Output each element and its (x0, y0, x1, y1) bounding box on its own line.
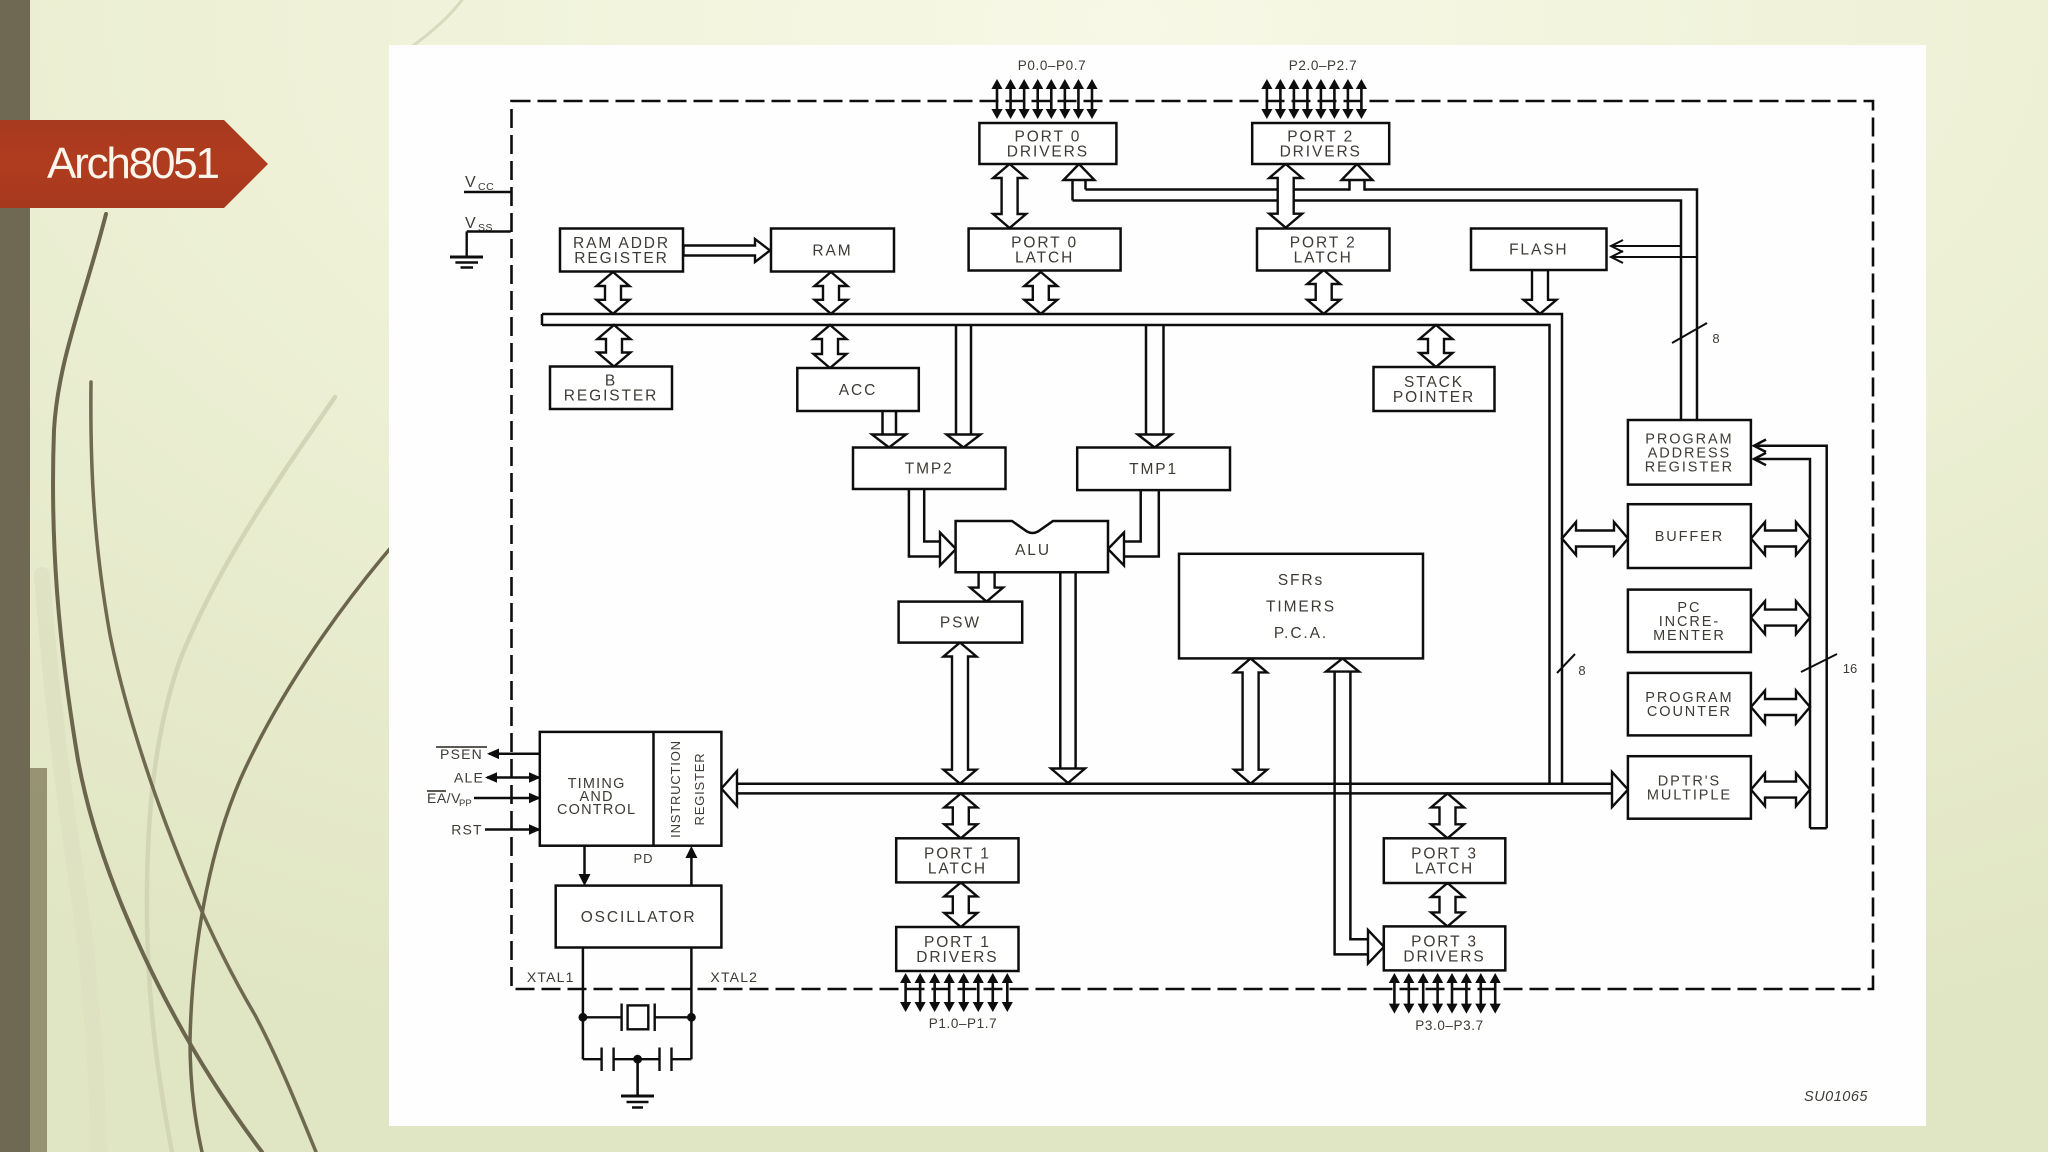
wire+arrow: bus to TMP2 (947, 325, 981, 448)
arrow: ALU to PSW (970, 572, 1003, 602)
Vcc pin label (464, 174, 512, 193)
arrow: bus to ACC (814, 325, 847, 368)
port 3 pins P3.0-P3.7 (1389, 973, 1501, 1014)
svg-text:EA/V: EA/V (427, 790, 461, 806)
arrow: PORT 3 LATCH to PORT 3 DRIVERS (1431, 883, 1464, 926)
block ACC (797, 368, 919, 411)
arrow: DPTR'S MULTIPLE to PC bus (1751, 773, 1810, 806)
arrow: bus to BUFFER (1562, 522, 1628, 555)
svg-text:PSW: PSW (940, 615, 981, 632)
block TIMING AND CONTROL (540, 732, 722, 846)
arrow: RAM ADDR REGISTER to bus (597, 272, 630, 314)
arrow: address lines up into PORT 0 DRIVERS (1064, 164, 1095, 201)
label: 8-bit slash (program address lines) (1672, 323, 1720, 346)
arrow: address lines up into PORT 2 DRIVERS (1342, 164, 1373, 191)
block PORT 1 LATCH (896, 838, 1018, 882)
svg-text:DRIVERS: DRIVERS (1007, 143, 1089, 160)
svg-text:REGISTER: REGISTER (564, 388, 658, 405)
arrow: PORT 2 DRIVERS to PORT 2 LATCH (1269, 164, 1302, 228)
wire: port driver address lines to program address register (1073, 190, 1698, 421)
arrow: bus to STACK POINTER (1420, 325, 1453, 367)
svg-text:8: 8 (1712, 331, 1719, 346)
wire: 16-bit program counter bus (right column) (1754, 440, 1827, 829)
svg-text:P0.0–P0.7: P0.0–P0.7 (1018, 58, 1086, 73)
wire+arrow: SFRs to PORT 3 DRIVERS (1326, 658, 1384, 963)
ground symbol (Vss) (450, 232, 483, 268)
wire+arrow: TMP1 to ALU (1108, 490, 1159, 566)
label: 8-bit slash (data bus right) (1557, 654, 1586, 678)
pin ALE (bidirectional) (454, 770, 541, 786)
block PORT 1 DRIVERS (896, 927, 1018, 971)
wire: XTAL2 leg (690, 948, 693, 1060)
svg-text:P2.0–P2.7: P2.0–P2.7 (1289, 58, 1357, 73)
svg-text:SU01065: SU01065 (1804, 1089, 1868, 1105)
svg-text:V: V (465, 215, 476, 232)
block RAM (771, 229, 894, 272)
capacitor C2 (638, 1048, 692, 1072)
svg-text:FLASH: FLASH (1509, 242, 1568, 259)
svg-text:TMP1: TMP1 (1129, 461, 1178, 478)
wire+arrow: ALU to data bus (1051, 572, 1085, 783)
svg-text:XTAL1: XTAL1 (527, 969, 575, 985)
block PROGRAM COUNTER (1628, 673, 1751, 736)
port 2 pins P2.0-P2.7 (1261, 79, 1367, 119)
block PORT 2 LATCH (1257, 229, 1390, 271)
svg-text:16: 16 (1843, 661, 1857, 676)
wire+arrow: OSCILLATOR to TIMING AND CONTROL (685, 846, 697, 886)
block PORT 0 LATCH (969, 229, 1121, 271)
block PROGRAM ADDRESS REGISTER (1628, 420, 1751, 485)
arrow: PORT 0 DRIVERS to PORT 0 LATCH (993, 164, 1026, 228)
block PSW (899, 602, 1023, 643)
block PORT 3 LATCH (1384, 838, 1506, 883)
slide title banner (0, 120, 268, 208)
wire+arrow: TMP2 to ALU (909, 489, 956, 566)
svg-text:REGISTER: REGISTER (692, 753, 707, 826)
block RAM ADDR REGISTER (560, 229, 683, 272)
arrow: PROGRAM COUNTER to PC bus (1751, 691, 1810, 724)
arrow: BUFFER to PC bus (1751, 522, 1810, 555)
wire: main internal bus (542, 314, 1562, 784)
arrow: data bus to PORT 1 LATCH (944, 793, 977, 838)
svg-text:RST: RST (451, 822, 483, 838)
svg-text:ALE: ALE (454, 770, 484, 786)
block PORT 3 DRIVERS (1384, 926, 1506, 970)
arrow: PORT 2 LATCH to bus (1307, 270, 1340, 314)
svg-text:LATCH: LATCH (1294, 249, 1353, 266)
arrow: PORT 0 LATCH to bus (1024, 272, 1057, 314)
svg-text:LATCH: LATCH (1415, 861, 1474, 878)
capacitor C1 (583, 1048, 638, 1072)
svg-text:ACC: ACC (839, 382, 877, 399)
svg-text:P1.0–P1.7: P1.0–P1.7 (929, 1016, 997, 1031)
svg-text:CONTROL: CONTROL (557, 802, 636, 818)
junction node XTAL2 (687, 1013, 696, 1022)
svg-text:OSCILLATOR: OSCILLATOR (581, 909, 697, 926)
wire+arrow: bus to TMP1 (1138, 325, 1172, 448)
arrow: PSW to data bus (944, 643, 977, 784)
svg-text:TMP2: TMP2 (905, 461, 954, 478)
block BUFFER (1628, 504, 1751, 568)
arrow: data bus to PORT 3 LATCH (1431, 793, 1464, 838)
block ALU (956, 521, 1108, 572)
svg-text:MULTIPLE: MULTIPLE (1647, 788, 1732, 804)
svg-text:PP: PP (459, 798, 472, 809)
block INSTRUCTION REGISTER (654, 732, 708, 846)
arrow: FLASH to bus (1524, 270, 1557, 314)
svg-text:COUNTER: COUNTER (1647, 704, 1732, 720)
arrow: data bus into DPTR'S MULTIPLE (1612, 772, 1628, 807)
svg-text:ALU: ALU (1015, 542, 1051, 559)
arrow: SFRs to data bus (1234, 658, 1267, 783)
svg-text:P3.0–P3.7: P3.0–P3.7 (1415, 1018, 1483, 1033)
ground symbol (crystal) (621, 1059, 654, 1107)
port 0 pins P0.0-P0.7 (991, 79, 1097, 119)
wire: XTAL1 leg (582, 948, 585, 1060)
svg-text:LATCH: LATCH (928, 860, 987, 877)
crystal Y1 (583, 1004, 692, 1032)
port 1 pins P1.0-P1.7 (900, 973, 1013, 1012)
pin EA/VPP (input) (427, 790, 541, 809)
svg-text:DRIVERS: DRIVERS (916, 949, 998, 966)
Vss pin label (465, 215, 511, 234)
svg-text:MENTER: MENTER (1653, 628, 1726, 644)
svg-text:PD: PD (633, 851, 653, 866)
arrow: data bus into INSTRUCTION REGISTER (721, 771, 737, 806)
block PORT 0 DRIVERS (979, 123, 1116, 164)
arrow: PORT 1 LATCH to PORT 1 DRIVERS (944, 882, 977, 927)
block B REGISTER (550, 367, 672, 410)
junction node capacitors (633, 1055, 642, 1064)
svg-text:DRIVERS: DRIVERS (1403, 948, 1485, 965)
svg-text:RAM: RAM (812, 242, 852, 259)
junction node XTAL1 (579, 1013, 588, 1022)
block TMP1 (1077, 448, 1230, 491)
arrow: RAM ADDR REGISTER to RAM (684, 239, 771, 262)
svg-text:REGISTER: REGISTER (1645, 459, 1734, 475)
block STACK POINTER (1374, 367, 1495, 411)
svg-text:POINTER: POINTER (1393, 389, 1475, 406)
arrow: bus to B REGISTER (598, 325, 631, 367)
svg-text:INSTRUCTION: INSTRUCTION (668, 740, 683, 838)
block FLASH (1471, 229, 1607, 271)
arrow: PC INCREMENTER to PC bus (1751, 601, 1810, 634)
svg-text:XTAL2: XTAL2 (710, 969, 758, 985)
block OSCILLATOR (556, 886, 722, 948)
svg-text:LATCH: LATCH (1015, 249, 1074, 266)
block PC INCREMENTER (1628, 590, 1751, 653)
svg-text:SFRs: SFRs (1278, 572, 1324, 589)
svg-text:BUFFER: BUFFER (1655, 529, 1724, 545)
pin PSEN (output) (436, 746, 540, 762)
svg-text:P.C.A.: P.C.A. (1274, 625, 1328, 642)
block DPTR'S MULTIPLE (1628, 756, 1751, 819)
chip boundary (dashed) (512, 101, 1874, 989)
svg-text:REGISTER: REGISTER (574, 250, 668, 267)
svg-text:DRIVERS: DRIVERS (1280, 143, 1362, 160)
block SFRs / TIMERS / P.C.A. (1179, 554, 1423, 659)
wire+arrow: TIMING AND CONTROL to OSCILLATOR (PD) (579, 846, 591, 886)
svg-text:PSEN: PSEN (440, 746, 483, 762)
wire: flash program feed lines (1611, 240, 1697, 263)
block PORT 2 DRIVERS (1252, 123, 1389, 164)
wire+arrow: ACC to TMP2 (872, 411, 906, 448)
block TMP2 (853, 448, 1006, 490)
pin RST (input) (451, 822, 541, 838)
label: 16-bit slash (1801, 654, 1857, 676)
svg-text:8: 8 (1578, 663, 1585, 678)
svg-text:V: V (465, 174, 476, 191)
wire: internal data bus to instruction register / DPTR (735, 784, 1613, 794)
svg-text:Arch8051: Arch8051 (47, 139, 218, 188)
svg-text:TIMERS: TIMERS (1266, 599, 1336, 616)
arrow: RAM to bus (815, 272, 848, 314)
